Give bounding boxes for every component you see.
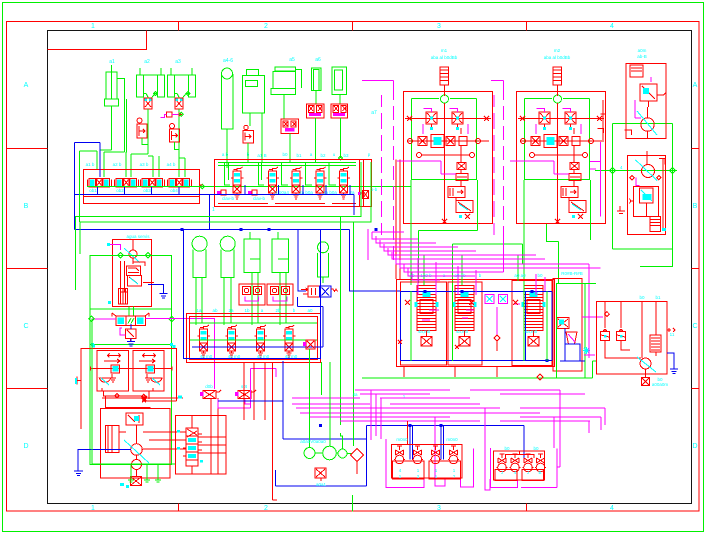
cyan corner ticks (91, 343, 173, 346)
B6 cyan (635, 160, 657, 201)
pump PG1-1 (394, 446, 405, 464)
PS2-to-B5 red link (598, 100, 606, 142)
manifold bottom labels (352, 392, 405, 399)
svg-text:1: 1 (91, 23, 95, 30)
svg-text:4a,m0: 4a,m0 (525, 329, 538, 334)
reducing valve below (125, 329, 136, 342)
PS2 label (544, 48, 571, 60)
tank T1 with breather (222, 68, 234, 168)
stack sub-box 3 (512, 280, 552, 365)
filter column (106, 426, 127, 453)
svg-text:a5: a5 (289, 57, 295, 63)
valve V-A2 (144, 98, 152, 109)
filter unit green enclosure (557, 284, 585, 378)
valve V-A5 (281, 119, 299, 134)
bank1 drain drops (98, 187, 180, 195)
svg-text:b1: b1 (655, 295, 661, 300)
wire V-A8 down (247, 143, 249, 162)
zone tick marks left (7, 149, 48, 389)
green enclosure powerunit (90, 253, 171, 465)
spring coil unit (650, 335, 661, 356)
svg-text:b0: b0 (533, 446, 539, 451)
svg-text:C: C (23, 323, 28, 330)
svg-text:a2 b: a2 b (113, 162, 122, 167)
valve B1-2 (115, 179, 139, 188)
svg-text:a4 b: a4 b (167, 162, 176, 167)
svg-text:B: B (538, 470, 541, 475)
blue drop bank2 right (298, 230, 306, 292)
green diamond on return (537, 374, 543, 380)
blue drops into pump group1 (410, 426, 444, 460)
group2 inner boxes (495, 470, 517, 481)
U-valve block 1 (239, 284, 265, 305)
red risers (605, 302, 656, 359)
pump box shell (101, 409, 171, 479)
green cross line (595, 170, 677, 172)
cylinder A5 assembly (large) (271, 67, 301, 119)
bank1 feeder jogs (100, 148, 185, 177)
wire cylA1 to bank (117, 79, 127, 153)
magenta pilot to 4way left (92, 318, 116, 320)
svg-text:a4-6: a4-6 (223, 58, 233, 64)
magenta pilot link (218, 368, 276, 408)
manifold labels top (409, 271, 582, 334)
svg-text:J: J (501, 470, 503, 475)
svg-text:4a: 4a (352, 392, 358, 397)
inlet valve (126, 413, 143, 425)
tank connection and blue drain (143, 282, 154, 284)
center pilot pair (485, 295, 507, 336)
svg-text:a1: a1 (109, 59, 115, 65)
valve B1-1 (88, 179, 112, 188)
cyan ticks accu (92, 345, 176, 349)
svg-text:4a,m0: 4a,m0 (418, 329, 431, 334)
accu R internals (139, 354, 162, 391)
green feeds through stacks (411, 255, 547, 361)
svg-text:b0: b0 (504, 446, 510, 451)
valve V-A7 red block (331, 104, 348, 118)
svg-text:clav-b: clav-b (253, 196, 266, 201)
valve V-A3 (175, 98, 183, 109)
pump PG2-2 (510, 454, 521, 472)
block labels (639, 295, 674, 387)
svg-text:ob3: ob3 (143, 188, 151, 193)
green drains w/ tanks (92, 318, 175, 482)
bank3 right stub (306, 340, 315, 349)
svg-text:1b: 1b (244, 308, 250, 313)
PS2 dash boundary left (493, 95, 495, 235)
red X at junction (142, 397, 147, 402)
svg-text:b2: b2 (320, 153, 326, 158)
wire valveA2 down (147, 109, 149, 154)
blue junction marks (181, 228, 443, 427)
svg-text:a0 a0: a0 a0 (514, 273, 526, 278)
blue junctions (240, 228, 378, 231)
svg-text:4a,m0: 4a,m0 (456, 329, 469, 334)
PS2 pilot dash line (491, 81, 504, 261)
green gauge cluster (304, 349, 353, 460)
svg-text:3: 3 (437, 505, 441, 512)
green supply rail through bank1 (87, 186, 411, 188)
solenoid S-A (161, 112, 182, 118)
PS2 green tank drop (452, 180, 590, 291)
stack valve column (186, 428, 198, 466)
charge line (90, 367, 172, 371)
green diamonds on pilot line (89, 316, 175, 322)
bank1 lower rail (84, 170, 203, 204)
cylinder C2 (220, 236, 235, 325)
svg-text:ab: ab (212, 308, 218, 313)
U-valve block 2 (267, 284, 293, 305)
zone tick marks top (179, 22, 527, 31)
svg-text:a6: a6 (315, 57, 321, 63)
power unit shell (113, 240, 152, 307)
relief RV-R2 (617, 329, 626, 343)
outlet block (131, 477, 142, 486)
pilot diamond (494, 335, 500, 351)
blue junctions (424, 290, 549, 362)
PS1 green tank drop (411, 180, 478, 285)
filter unit right of manifold (553, 279, 582, 372)
bank2 labels above (222, 152, 378, 201)
wire V-A5 down (289, 134, 291, 163)
magenta drop right of PS2 (590, 142, 601, 217)
svg-text:ob4: ob4 (170, 188, 178, 193)
cylinder C3 (244, 232, 260, 325)
valve B2-6 small (358, 191, 369, 199)
red feed drop (407, 421, 409, 445)
svg-text:A: A (24, 82, 29, 89)
suction strainer (119, 289, 128, 305)
svg-text:a0a1: a0a1 (316, 482, 327, 487)
svg-text:ob1: ob1 (89, 188, 97, 193)
bank3 labels (196, 308, 313, 359)
svg-text:m1: m1 (441, 48, 448, 53)
center box shell (176, 416, 227, 475)
magenta drop right (582, 264, 603, 358)
cylinder A3 (168, 68, 196, 98)
red diamond at block inlet (604, 312, 609, 317)
pump PG1-2 (412, 446, 423, 464)
valve V-A8 small (243, 125, 254, 143)
svg-text:C: C (692, 323, 697, 330)
pilot valve PV2 (238, 390, 256, 399)
svg-text:1: 1 (91, 505, 95, 512)
stack sub-box 1 (400, 282, 446, 365)
relief valve RV-A2 (137, 118, 147, 138)
svg-text:aba al b0dBb: aba al b0dBb (431, 55, 458, 60)
bank3 blue drain rail (192, 313, 323, 347)
PS1 dash boundary left (381, 95, 383, 235)
svg-text:2: 2 (264, 23, 268, 30)
valve V-A6 red block (306, 104, 324, 118)
PS1 bottom X (442, 219, 447, 224)
wire RV-A3 to bank (175, 142, 180, 150)
svg-text:a3: a3 (175, 59, 181, 65)
svg-text:4: 4 (610, 23, 614, 30)
blue pilot rail (400, 291, 552, 360)
svg-text:aba al b0dBb: aba al b0dBb (544, 55, 571, 60)
stack valve ST3 (522, 286, 546, 347)
control valve stack (121, 261, 146, 292)
cylinder A4 assembly (242, 70, 264, 162)
svg-text:a2: a2 (144, 59, 150, 65)
svg-text:2a: 2a (228, 308, 234, 313)
solenoid valve SV1 (298, 286, 338, 313)
svg-text:a7: a7 (371, 110, 377, 116)
stack valve ST1 (415, 286, 439, 347)
group1 labels (396, 437, 458, 479)
blue return bus upper (75, 195, 355, 216)
wire valveA3 down (178, 109, 180, 158)
blue drop to stack block (350, 230, 401, 292)
red title box top-left (48, 31, 147, 50)
svg-text:a1 B: a1 B (257, 153, 266, 158)
dashed rows (355, 389, 560, 391)
svg-text:J: J (527, 470, 529, 475)
svg-text:A: A (693, 82, 698, 89)
stack valve ST2 (453, 286, 477, 347)
svg-text:agua servis: agua servis (126, 234, 150, 239)
svg-text:2b: 2b (275, 308, 281, 313)
zone tick marks bottom (179, 504, 527, 512)
accu L internals (99, 354, 120, 391)
green trunk A (76, 162, 362, 290)
pump P2 (132, 455, 142, 476)
bank2 bottom dashes (218, 203, 356, 205)
PS2 green link to filter (547, 224, 559, 284)
PS2 spring accumulator (553, 67, 562, 96)
cylinder A7 (green tube) (332, 67, 347, 104)
bank1 enclosure (84, 170, 200, 197)
group2 shell (494, 451, 545, 480)
PS2 bottom X (555, 219, 560, 224)
PS1 pilot dash line (362, 81, 394, 261)
valve B3-3 (255, 325, 268, 357)
bank1 labels (86, 162, 179, 193)
B5 pilot magenta (635, 77, 651, 118)
blue drain left (74, 450, 131, 476)
B5 cyan details (637, 111, 657, 135)
pump PG2-4 (535, 454, 546, 472)
green trunk B (80, 162, 371, 254)
accu sub-box L (97, 351, 129, 392)
block B5 (hand pump unit) (625, 64, 667, 139)
green stub at bottom zone tick (352, 495, 354, 512)
svg-text:b3: b3 (343, 153, 349, 158)
cross connections (143, 398, 226, 474)
pump PG2-1 (497, 454, 508, 472)
valve B3-1 (198, 325, 211, 357)
pilot P2-2 (248, 190, 257, 195)
svg-text:a0a0V0a0a0: a0a0V0a0a0 (300, 439, 326, 444)
pump PG1-3 (430, 446, 441, 464)
svg-text:D: D (23, 443, 28, 450)
block B6 (motor unit) (617, 151, 666, 235)
svg-text:m2: m2 (554, 48, 561, 53)
blue left riser (75, 143, 100, 230)
cylinder C1 (192, 236, 207, 325)
svg-text:D: D (692, 443, 697, 450)
svg-text:b0: b0 (537, 273, 543, 278)
bank2 inner rails (360, 160, 364, 207)
bank3 enclosure (187, 314, 321, 363)
red cross marks (398, 300, 518, 349)
blue drain right (667, 353, 678, 374)
cylinder C5 (317, 242, 328, 283)
cylinder C4 (272, 232, 288, 325)
cylinder A2 (137, 68, 165, 98)
green trunk D down (352, 222, 354, 440)
valve B3-2 (226, 325, 239, 357)
pump P1 (131, 425, 143, 455)
group2 labels (501, 446, 542, 475)
svg-text:d0b: d0b (205, 384, 213, 389)
blue box around cylinders (184, 230, 321, 359)
left T-port (77, 376, 81, 384)
bus riser group (372, 232, 601, 280)
group1 shell (392, 445, 463, 479)
station PS1 shell (397, 92, 493, 225)
svg-text:11: 11 (670, 332, 675, 337)
svg-text:b0: b0 (639, 295, 645, 300)
magenta feeds into stacks (418, 258, 545, 320)
relief valve RV-A3 (170, 124, 180, 143)
right port marks (667, 328, 675, 332)
svg-text:b1: b1 (296, 153, 302, 158)
blue drop to bus (209, 195, 211, 230)
wire V-A6 down (315, 118, 317, 162)
valve B2-3 (290, 167, 303, 199)
pilot P2-1 (217, 190, 226, 195)
bank2 green feeders (218, 162, 356, 185)
bank2 blue drains (245, 185, 350, 195)
manifold shell (397, 280, 555, 367)
svg-text:ab-B: ab-B (637, 54, 647, 59)
pump M1 (129, 240, 137, 264)
svg-text:R0#B-R#B: R0#B-R#B (561, 271, 583, 276)
pilot valve PV1 (203, 390, 221, 399)
valve B2-4 (314, 167, 327, 199)
wire V-A7 down (340, 118, 342, 158)
svg-text:m0n0: m0n0 (446, 437, 458, 442)
svg-text:a b: a b (222, 152, 229, 157)
svg-text:1: 1 (212, 207, 215, 213)
green diamond joints (610, 168, 676, 174)
valve B1-3 (141, 179, 165, 188)
svg-text:b0: b0 (282, 152, 288, 157)
block shell (597, 302, 668, 375)
cylinder A1 (105, 65, 119, 150)
zone tick marks right (692, 149, 700, 389)
B5 label (637, 48, 647, 59)
svg-text:3: 3 (437, 23, 441, 30)
svg-text:ob2: ob2 (116, 188, 124, 193)
B6 magenta pilot (636, 178, 640, 186)
valve B1-4 (168, 179, 192, 188)
red link down from manifold (404, 367, 497, 378)
green junction diamonds (154, 92, 343, 189)
svg-text:1a: 1a (196, 308, 202, 313)
valve B2-1 (231, 167, 244, 199)
green enclosure right (613, 124, 673, 268)
stack sub-box 2 (448, 282, 482, 365)
PS1 label (431, 48, 458, 60)
blue return bus lower (75, 229, 350, 231)
pump PR1 (640, 358, 651, 377)
svg-text:B: B (24, 203, 29, 210)
magenta pilot from 4way (146, 318, 215, 389)
group2 red feed U (506, 451, 534, 458)
relief RV-R1 (601, 329, 610, 343)
inner boxes (393, 461, 424, 479)
green feeder into bank1 left (80, 151, 98, 222)
svg-text:a00a0m: a00a0m (652, 382, 669, 387)
filter blue lines (560, 329, 585, 362)
valve B3-4 (283, 325, 296, 357)
station PS2 shell (510, 92, 606, 225)
cyan sun mark (583, 347, 590, 354)
valve B2-2 (267, 167, 280, 199)
pump PG1-4 (448, 446, 459, 464)
svg-text:a0: a0 (307, 308, 313, 313)
red diamond fitting (351, 449, 364, 475)
pilot inlet magenta (110, 245, 121, 251)
bus verticals and hooks (386, 390, 605, 490)
svg-text:clav-b: clav-b (222, 196, 235, 201)
outlet square (642, 378, 650, 386)
svg-text:a0m: a0m (638, 48, 647, 53)
drain valve below gauges (315, 468, 326, 481)
blue riser left of center (218, 361, 524, 486)
svg-text:a3 b: a3 b (140, 162, 149, 167)
pump PG2-3 (523, 454, 534, 472)
svg-text:m0n0: m0n0 (396, 437, 408, 442)
svg-text:2: 2 (264, 505, 268, 512)
labels top-left cylinders (109, 57, 377, 116)
wire RV-A2 to bank (142, 138, 148, 145)
PS1 spring accumulator (440, 67, 449, 96)
cyan ticks center box (177, 430, 203, 463)
bank3 red drains down (244, 363, 277, 501)
svg-text:4: 4 (610, 505, 614, 512)
accumulator box shell (81, 349, 177, 430)
red feeders to manifold (396, 160, 400, 280)
svg-text:B: B (693, 203, 698, 210)
green long return (362, 284, 596, 378)
bank2 enclosure (215, 160, 372, 207)
valve B2-5 (338, 167, 351, 199)
accu sub-box R (133, 351, 164, 392)
4-way directional valve (112, 313, 149, 325)
bank3 green rails (190, 323, 317, 340)
green trunk C down (339, 217, 341, 426)
cylinder A6 (green tube) (311, 68, 321, 104)
accu box outlet routing (102, 391, 183, 407)
svg-text:a1 b: a1 b (86, 162, 95, 167)
svg-text:b-b: b-b (371, 187, 378, 192)
